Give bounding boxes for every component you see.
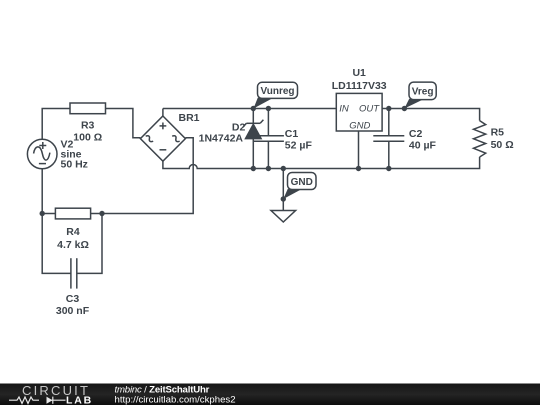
svg-text:4.7 kΩ: 4.7 kΩ — [57, 239, 89, 251]
svg-text:IN: IN — [339, 103, 349, 114]
wire U1 OUT to R5 top corner — [382, 109, 480, 121]
resistor R4 — [55, 208, 90, 219]
junction dot top rail C2 — [386, 106, 391, 111]
bridge rectifier BR1 — [140, 116, 185, 161]
wire C1 bottom — [267, 141, 269, 168]
junction dot mid rail left — [40, 211, 45, 216]
svg-text:50 Ω: 50 Ω — [491, 139, 514, 151]
svg-text:LD1117V33: LD1117V33 — [332, 80, 387, 92]
junction dot bottom rail D2 — [251, 166, 256, 171]
svg-text:R3: R3 — [81, 120, 95, 132]
svg-text:52 µF: 52 µF — [285, 139, 313, 151]
junction dot mid rail right — [99, 211, 104, 216]
wire C1 top — [267, 109, 269, 136]
footer bar — [0, 384, 540, 405]
junction dot top rail D2 — [251, 106, 256, 111]
svg-text:40 µF: 40 µF — [409, 139, 437, 151]
svg-text:C3: C3 — [66, 293, 80, 305]
wire ground stub — [282, 169, 284, 211]
svg-text:C2: C2 — [409, 128, 423, 140]
wire D2 top — [252, 109, 254, 124]
junction dot top rail C1 — [266, 106, 271, 111]
wire bridge right vertex down to mid rail — [102, 138, 193, 214]
flag Vunreg — [254, 82, 298, 108]
ground symbol — [271, 211, 296, 223]
svg-text:R5: R5 — [491, 127, 505, 139]
junction dot bottom rail C1 — [266, 166, 271, 171]
wire C2 bottom — [388, 141, 390, 168]
zener diode D2 — [243, 120, 263, 139]
regulator U1 — [336, 93, 382, 131]
svg-text:100 Ω: 100 Ω — [73, 132, 102, 144]
wire top rail to U1 IN — [163, 108, 336, 110]
svg-text:Vreg: Vreg — [412, 87, 434, 98]
resistor R3 — [70, 103, 106, 114]
wire bridge top stub — [162, 109, 164, 117]
resistor R5 — [474, 121, 486, 157]
junction dot bottom rail gnd — [281, 166, 286, 171]
wire D2 bottom — [252, 139, 254, 169]
junction dot bottom rail U1 GND — [356, 166, 361, 171]
voltage source V2 — [27, 139, 57, 169]
junction dot bottom rail C2 — [386, 166, 391, 171]
capacitor C3 — [71, 258, 77, 288]
svg-text:U1: U1 — [352, 67, 366, 79]
wire R4 right to junction — [91, 213, 102, 215]
svg-text:1N4742A: 1N4742A — [199, 132, 244, 144]
svg-text:LAB: LAB — [66, 395, 93, 405]
flag Vreg — [404, 82, 436, 108]
svg-text:http://circuitlab.com/ckphes2: http://circuitlab.com/ckphes2 — [115, 395, 236, 405]
svg-text:C1: C1 — [285, 128, 299, 140]
wire C3 right branch — [77, 214, 102, 274]
wire C3 left branch — [42, 214, 71, 274]
wire bottom rail with hop — [163, 157, 480, 169]
wire C2 top — [388, 109, 390, 136]
svg-text:OUT: OUT — [359, 103, 380, 114]
svg-text:GND: GND — [349, 120, 370, 131]
logo resistor diode squiggle — [9, 397, 66, 404]
capacitor C2 — [373, 136, 404, 141]
wire V2 bottom to R4 left — [42, 169, 55, 214]
flag GND — [283, 173, 316, 200]
svg-text:300 nF: 300 nF — [56, 305, 90, 317]
wire R3 right to bridge left vertex — [106, 109, 141, 138]
junction dot top rail Vreg — [402, 106, 407, 111]
svg-text:GND: GND — [291, 177, 313, 188]
wire V2 top to R3 — [42, 109, 70, 140]
junction dot gnd stub — [281, 196, 286, 201]
wire U1 GND pin — [358, 131, 360, 169]
svg-text:BR1: BR1 — [179, 112, 200, 124]
svg-text:50 Hz: 50 Hz — [61, 159, 88, 171]
capacitor C1 — [253, 136, 284, 141]
svg-text:R4: R4 — [66, 226, 80, 238]
svg-text:Vunreg: Vunreg — [260, 86, 294, 97]
